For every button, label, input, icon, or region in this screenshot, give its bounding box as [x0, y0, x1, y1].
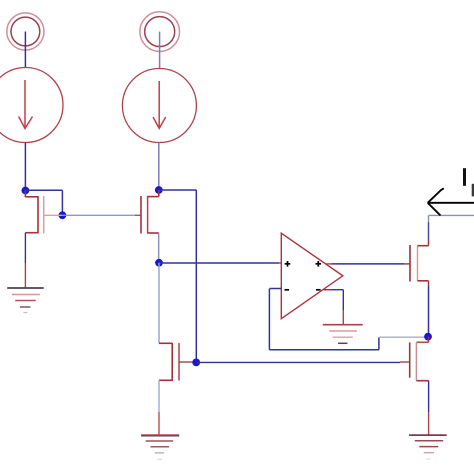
wire node A right: [25, 189, 62, 191]
output wire to right edge: [429, 214, 474, 216]
node C (drain M2 junction): [155, 186, 163, 194]
wire op-amp + output to M4 gate: [325, 263, 410, 265]
current source I1: [0, 68, 63, 143]
wire port P1 to current source I1: [24, 32, 26, 69]
wire M4 drain to output corner: [428, 215, 430, 222]
label I (output current): [463, 168, 474, 196]
transistor M1 (diode-connected NMOS, mirrored): [25, 191, 62, 234]
wire M1 source to ground: [24, 233, 26, 263]
wire port P2 to current source I2: [159, 32, 161, 69]
wire feedback loop jog up: [378, 337, 380, 349]
wire node E to M5 gate: [196, 361, 400, 363]
wire feedback loop bottom: [269, 349, 379, 351]
wire M3 source to ground: [158, 380, 160, 412]
op-amp - output label: [316, 289, 321, 291]
wire feedback loop to node F: [379, 336, 428, 338]
wire node D to op-amp + input: [159, 262, 279, 264]
wire cascode gate column down: [195, 190, 197, 362]
wire op-amp - input stub: [269, 288, 281, 290]
wire I1 to node A: [24, 143, 26, 191]
op-amp - input label: [285, 289, 290, 291]
wire feedback loop down: [268, 289, 270, 350]
wire down to node B: [61, 190, 63, 215]
wire op-amp - output to ground: [323, 290, 343, 325]
wire node D to M3 drain: [158, 263, 160, 344]
port P1 (supply terminal, double circle): [7, 13, 44, 50]
op-amp U1 (fully differential amplifier): [281, 233, 343, 319]
node A (junction drain/gate M1): [22, 187, 30, 195]
node B (gate junction): [59, 211, 67, 219]
ground GND1: [7, 288, 44, 313]
wire node B to M2 gate: [62, 214, 135, 216]
op-amp + input label: [285, 261, 291, 267]
wire M4 source to node F: [428, 281, 430, 337]
transistor M4 (output NMOS cascode): [410, 240, 429, 282]
transistor M5 (bottom right NMOS): [410, 337, 429, 381]
ground GND2: [141, 435, 179, 460]
current source I2: [122, 69, 196, 143]
wire M2 source to node D: [158, 233, 160, 263]
transistor M3 (NMOS, mirrored gate right): [159, 343, 193, 381]
current direction arrow (black, pointing left): [428, 188, 474, 215]
node E (gate junction M3/M5): [192, 359, 200, 367]
wire M5 source to ground: [428, 381, 430, 435]
wire node C right to cascode column: [159, 189, 197, 191]
port P2 (supply terminal, double circle): [140, 12, 180, 52]
transistor M2 (cascode NMOS): [141, 190, 159, 234]
ground GND3: [323, 325, 363, 344]
op-amp + output label: [316, 261, 322, 267]
ground GND4: [409, 435, 447, 459]
node F (feedback node, source M4 / drain M5): [424, 333, 432, 341]
node D (source M2 / + input node): [155, 259, 163, 267]
wire I2 to node C: [158, 143, 160, 191]
